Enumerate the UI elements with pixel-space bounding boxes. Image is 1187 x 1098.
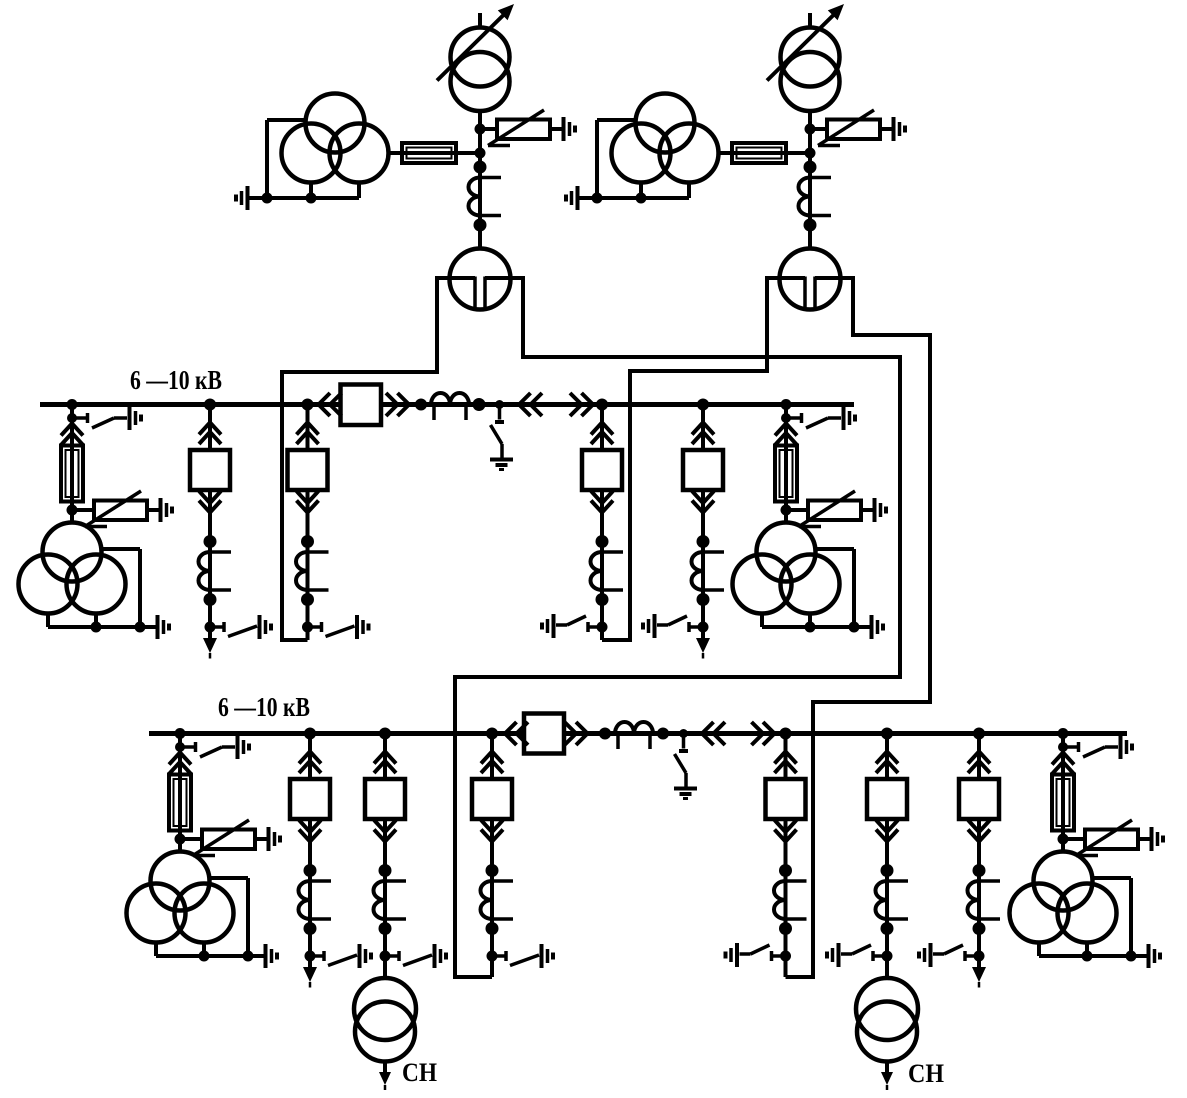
ground (earth electrode) (358, 944, 362, 968)
bus section 3 (6-10 kV lower left) (149, 731, 524, 736)
incoming cell I3 plug contacts (upper) (490, 734, 494, 780)
incoming cell I1 circuit breaker (288, 450, 328, 490)
feeder cell F4 outgoing arrow (977, 956, 981, 970)
wire reactor T1 left terminal (437, 276, 475, 280)
node T1-arrester tap (475, 124, 486, 135)
feeder cell F2 outgoing arrow (701, 627, 705, 641)
incoming cell I1 bus junction (302, 399, 314, 411)
transformer T1 HV stub (478, 13, 482, 28)
incoming cell I3 circuit breaker (472, 779, 512, 819)
feeder cell F1 current transformer (208, 513, 212, 628)
ground (earth electrode) (674, 787, 697, 791)
feeder cell F4 bus junction (973, 728, 985, 740)
incoming cell I2 lead (600, 627, 604, 640)
current transformer TA-T1 (474, 161, 487, 174)
feeder cell F1 circuit breaker (190, 450, 230, 490)
VT branch sec4 surge arrester (1063, 837, 1085, 841)
aux transformer cell A2 bus junction (881, 728, 893, 740)
node T2-VT tap (805, 148, 816, 159)
incoming cell I4 earthing switch (773, 954, 786, 958)
VT branch sec4 plug contacts (1061, 747, 1065, 776)
ground (earth electrode) (552, 614, 556, 638)
VT branch sec4 fuse (1061, 764, 1065, 840)
wire reactor T1 right terminal (485, 276, 523, 280)
bus current transformer TA-B1 (431, 393, 469, 405)
feeder cell F4 circuit breaker (959, 779, 999, 819)
incoming cell I3 current transformer (490, 842, 494, 957)
VT branch sec2 earthing switch (786, 416, 800, 420)
incoming cell I4 bus junction (780, 728, 792, 740)
VT branch sec1 surge arrester (72, 508, 94, 512)
feeder cell F2 current transformer (701, 513, 705, 628)
earthing switch tap lower (679, 729, 688, 738)
bus section 1 (6-10 kV upper left) (40, 402, 341, 407)
ground (earth electrode) (870, 615, 874, 639)
ground (earth electrode) (873, 498, 877, 522)
VT branch sec1 fuse (70, 435, 74, 511)
bus current transformer TA-B2 (615, 722, 653, 734)
incoming cell I3 earthing switch (492, 954, 505, 958)
node T2-arrester tap (805, 124, 816, 135)
aux transformer cell A2 plug contacts (lower) (885, 819, 889, 843)
feeder cell F4 earthing switch (966, 954, 979, 958)
ground (earth electrode) (433, 944, 437, 968)
incoming cell I1 earthing switch (308, 625, 321, 629)
ground (earth electrode) (929, 943, 933, 967)
ground (earth electrode) (267, 827, 271, 851)
aux transformer cell A2 earthing-switch junction (882, 951, 893, 962)
transformer T1 tap-changer arrow (437, 15, 504, 81)
incoming cell I2 earthing-switch junction (597, 622, 608, 633)
feeder cell F2 earthing switch (690, 625, 703, 629)
ground (earth electrode) (653, 614, 657, 638)
feeder cell F1 outgoing arrow (208, 627, 212, 641)
VT branch sec3 fuse (178, 764, 182, 840)
voltage transformer TV2 (636, 94, 695, 153)
aux transformer cell A1 bus junction (379, 728, 391, 740)
wire reactor T2 right terminal (815, 276, 853, 280)
ground (earth electrode) (264, 944, 268, 968)
feeder cell F1 plug contacts (upper) (208, 405, 212, 451)
feeder cell F3 plug contacts (upper) (308, 734, 312, 780)
VT branch sec2 voltage transformer (784, 510, 788, 524)
VT branch sec2 fuse (784, 435, 788, 511)
aux TSN2 arrow (885, 1062, 889, 1075)
incoming cell I4 circuit breaker (766, 779, 806, 819)
VT branch sec3 earthing switch (180, 745, 194, 749)
incoming cell I3 plug contacts (lower) (490, 819, 494, 843)
incoming cell I2 current transformer (600, 513, 604, 628)
node QB1-reactor (415, 399, 427, 411)
node T1-VT tap (475, 148, 486, 159)
aux transformer cell A2 current transformer (885, 842, 889, 957)
voltage transformer TV1 (306, 94, 365, 153)
VT branch sec4 bus junction (1058, 728, 1069, 739)
feeder cell F2 circuit breaker (683, 450, 723, 490)
node QB2-reactor (599, 728, 611, 740)
ground (earth electrode) (1119, 735, 1123, 759)
aux cell A1 earthing switch (385, 954, 398, 958)
aux transformer cell A2 plug contacts (upper) (885, 734, 889, 780)
aux transformer cell A1 circuit breaker (365, 779, 405, 819)
incoming cell I1 earthing-switch junction (302, 622, 313, 633)
feeder cell F2 plug contacts (upper) (701, 405, 705, 451)
bus tie plug contacts upper (left) (519, 393, 531, 416)
ground (earth electrode) (735, 943, 739, 967)
surge arrester FT1 (480, 127, 497, 131)
ground (earth electrode) (236, 735, 240, 759)
feeder cell F3 current transformer (308, 842, 312, 957)
aux transformer cell A1 earthing-switch junction (380, 951, 391, 962)
VT branch sec3 plug contacts (178, 747, 182, 776)
feeder cell F3 earthing switch (310, 954, 323, 958)
wire reactor T2 left winding to section 2 incoming (602, 276, 767, 640)
bus tie plug contacts lower (left) (702, 722, 714, 745)
transformer T1 (two-winding, OLTC) (451, 28, 510, 87)
section breaker QB2 right plug contacts (565, 722, 577, 745)
ground (earth electrode) (355, 615, 359, 639)
incoming cell I3 bus junction (486, 728, 498, 740)
node reactor-B1 out (473, 398, 486, 411)
surge arrester FT2 (810, 127, 827, 131)
section breaker QB1 left plug contacts (319, 393, 331, 416)
wire T1 secondary lead (478, 111, 482, 250)
split reactor LR-T1 (450, 249, 511, 310)
incoming cell I2 bus junction (596, 399, 608, 411)
ground (earth electrode) (159, 498, 163, 522)
VT branch sec1 earthing switch (72, 416, 86, 420)
feeder cell F4 earthing-switch junction (974, 951, 985, 962)
current transformer TA-T2 (804, 161, 817, 174)
incoming cell I1 current transformer (306, 513, 310, 628)
earthing switch tap upper (495, 400, 504, 409)
incoming cell I4 plug contacts (upper) (784, 734, 788, 780)
transformer T2 tap-changer arrow (767, 15, 834, 81)
svg-text:СН: СН (908, 1059, 944, 1088)
ground (earth electrode) (490, 458, 513, 462)
ground (earth electrode) (156, 615, 160, 639)
aux transformer TSN1 (383, 956, 387, 979)
aux transformer cell A1 plug contacts (upper) (383, 734, 387, 780)
aux transformer cell A2 circuit breaker (867, 779, 907, 819)
VT branch sec1 plug contacts (70, 418, 74, 447)
feeder cell F3 bus junction (304, 728, 316, 740)
ground (earth electrode) (837, 943, 841, 967)
VT branch sec4 earthing switch (1063, 745, 1077, 749)
wire reactor T1 right winding to section 3 incoming (455, 276, 900, 977)
VT branch sec1 voltage transformer (70, 510, 74, 524)
svg-text:6 —10 кВ: 6 —10 кВ (130, 365, 222, 395)
feeder cell F2 plug contacts (lower) (701, 490, 705, 514)
incoming cell I2 circuit breaker (582, 450, 622, 490)
feeder cell F4 current transformer (977, 842, 981, 957)
section breaker QB1 (341, 385, 382, 426)
feeder cell F2 earthing-switch junction (698, 622, 709, 633)
svg-text:6 —10 кВ: 6 —10 кВ (218, 692, 310, 722)
incoming cell I1 plug contacts (lower) (306, 490, 310, 514)
VT branch sec2 surge arrester (786, 508, 808, 512)
ground (earth electrode) (562, 117, 566, 141)
incoming cell I3 earthing-switch junction (487, 951, 498, 962)
VT branch sec4 voltage transformer (1061, 839, 1065, 853)
wire reactor T2 right winding to section 4 incoming (786, 276, 931, 977)
incoming cell I3 lead (490, 956, 494, 977)
ground (earth electrode) (258, 615, 262, 639)
aux cell A2 earthing switch (874, 954, 887, 958)
ground (earth electrode) (1150, 827, 1154, 851)
feeder cell F4 plug contacts (upper) (977, 734, 981, 780)
bus section 4 (6-10 kV lower right) (564, 731, 1127, 736)
feeder cell F1 bus junction (204, 399, 216, 411)
transformer T2 (two-winding, OLTC) (781, 28, 840, 87)
feeder cell F1 earthing switch (210, 625, 223, 629)
ground (earth electrode) (576, 186, 580, 210)
ground (earth electrode) (540, 944, 544, 968)
node reactor-B2 out (657, 728, 669, 740)
VT branch sec1 bus junction (67, 399, 78, 410)
VT branch sec2 bus junction (781, 399, 792, 410)
feeder cell F4 plug contacts (lower) (977, 819, 981, 843)
split reactor LR-T2 (780, 249, 841, 310)
feeder cell F3 circuit breaker (290, 779, 330, 819)
bus tie plug contacts upper (right) (570, 393, 582, 416)
VT branch sec3 surge arrester (180, 837, 202, 841)
ground (earth electrode) (246, 186, 250, 210)
fuse of TV2 (717, 151, 786, 155)
incoming cell I2 earthing switch (589, 625, 602, 629)
incoming cell I4 plug contacts (lower) (784, 819, 788, 843)
aux TSN1 arrow (383, 1062, 387, 1075)
section breaker QB1 right plug contacts (386, 393, 398, 416)
ground (earth electrode) (892, 117, 896, 141)
bus tie plug contacts lower (right) (752, 722, 764, 745)
wire reactor T1 left winding to section 1 incoming (282, 276, 437, 640)
section breaker QB2 left plug contacts (505, 722, 517, 745)
aux transformer TSN2 (885, 956, 889, 979)
bus section 2 (6-10 kV upper right) (381, 402, 854, 407)
ground (earth electrode) (1147, 944, 1151, 968)
incoming cell I2 plug contacts (upper) (600, 405, 604, 451)
feeder cell F3 plug contacts (lower) (308, 819, 312, 843)
ground (earth electrode) (842, 406, 846, 430)
VT branch sec3 bus junction (175, 728, 186, 739)
transformer T2 HV stub (808, 13, 812, 28)
aux transformer cell A1 plug contacts (lower) (383, 819, 387, 843)
svg-text:СН: СН (402, 1058, 437, 1087)
aux transformer cell A1 current transformer (383, 842, 387, 957)
VT branch sec3 voltage transformer (178, 839, 182, 853)
incoming cell I1 plug contacts (upper) (306, 405, 310, 451)
incoming cell I1 lead (306, 627, 310, 640)
feeder cell F3 earthing-switch junction (305, 951, 316, 962)
wire reactor T2 left terminal (767, 276, 805, 280)
incoming cell I2 plug contacts (lower) (600, 490, 604, 514)
feeder cell F1 earthing-switch junction (205, 622, 216, 633)
incoming cell I4 lead (784, 956, 788, 977)
VT branch sec2 plug contacts (784, 418, 788, 447)
wire T2 secondary lead (808, 111, 812, 250)
section breaker QB2 (524, 714, 564, 754)
incoming cell I4 earthing-switch junction (780, 951, 791, 962)
feeder cell F2 bus junction (697, 399, 709, 411)
feeder cell F1 plug contacts (lower) (208, 490, 212, 514)
incoming cell I4 current transformer (784, 842, 788, 957)
fuse of TV1 (387, 151, 456, 155)
feeder cell F3 outgoing arrow (308, 956, 312, 970)
ground (earth electrode) (128, 406, 132, 430)
